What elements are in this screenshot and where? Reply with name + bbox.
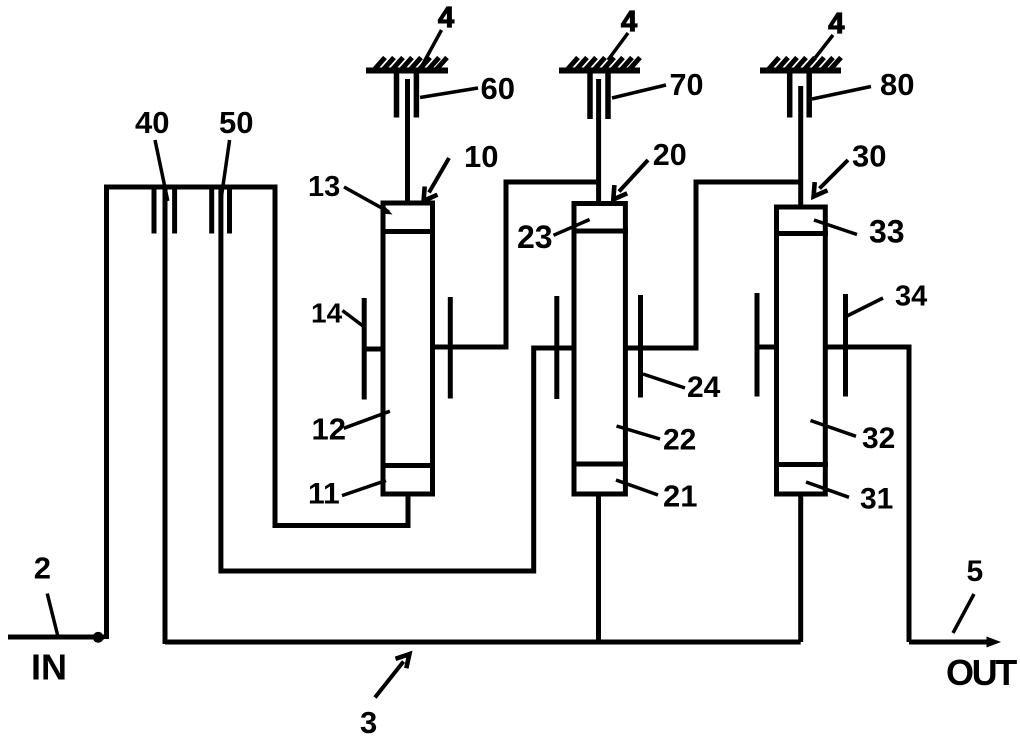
label 31 xyxy=(806,482,893,516)
wire: clutch 50 output drop xyxy=(221,187,574,571)
svg-text:60: 60 xyxy=(481,71,515,106)
brake 70 (two stubs under ground 2) xyxy=(590,72,608,119)
wire: shaft from ground 1 down to unit 10 xyxy=(405,79,410,204)
svg-text:22: 22 xyxy=(663,424,696,457)
clutch 40 (right plate) xyxy=(172,189,177,234)
wire: left input riser xyxy=(104,185,109,639)
label 4 (ground 3) xyxy=(815,8,844,58)
node IN arrow xyxy=(8,635,104,640)
label 50 xyxy=(219,105,253,196)
svg-text:33: 33 xyxy=(869,214,905,250)
svg-text:OUT: OUT xyxy=(946,652,1017,693)
label 70 xyxy=(612,68,703,102)
label 60 xyxy=(420,71,515,106)
svg-text:10: 10 xyxy=(464,139,498,174)
svg-text:IN: IN xyxy=(31,647,67,688)
label 22 xyxy=(617,424,697,457)
wire: shaft from ground 2 down to unit 20 xyxy=(596,79,601,205)
label 10 with arrow xyxy=(424,139,499,201)
gear plate (left of unit 30) xyxy=(755,293,760,397)
label 40 xyxy=(135,105,169,201)
brake 60 (two stubs under ground 1) xyxy=(397,72,417,118)
wire: unit 30 right side to output drop xyxy=(825,347,909,642)
label 34 xyxy=(846,281,927,317)
wire: shaft from ground 3 down to unit 30 xyxy=(798,86,803,208)
wire: stub plate 14 to unit 10 xyxy=(362,347,383,352)
gear plate 14 (left of unit 10) xyxy=(362,298,367,400)
unit 20 upper cap divider 23 xyxy=(572,229,629,234)
wire: stub plate to unit 30 xyxy=(755,345,777,350)
label 33 xyxy=(814,214,905,250)
label 30 with arrow xyxy=(814,139,887,197)
svg-text:12: 12 xyxy=(312,412,346,447)
ground (fixed frame) symbol over unit 30 xyxy=(760,58,841,72)
svg-text:20: 20 xyxy=(653,138,687,172)
wire: unit 10 right side up-and-over to unit 20 shaft xyxy=(433,182,599,347)
gear plate 24 (right of unit 20) xyxy=(638,295,643,398)
gear plate (right of unit 10) xyxy=(448,297,453,399)
wire: bottom rail 3 xyxy=(165,640,801,645)
svg-text:5: 5 xyxy=(967,555,984,588)
label 12 xyxy=(312,411,390,446)
wire: input top rail xyxy=(104,185,278,190)
svg-text:80: 80 xyxy=(880,67,914,102)
svg-text:4: 4 xyxy=(438,2,454,34)
svg-text:24: 24 xyxy=(687,371,721,404)
svg-text:14: 14 xyxy=(311,298,343,329)
vibrator unit 10 body xyxy=(383,203,433,494)
label 4 (ground 2) xyxy=(608,6,637,60)
svg-text:50: 50 xyxy=(219,105,253,140)
unit 20 lower cap divider 21 xyxy=(572,462,629,467)
brake 80 (two stubs under ground 3) xyxy=(790,72,810,118)
svg-text:2: 2 xyxy=(34,551,51,586)
label 32 xyxy=(811,421,896,456)
svg-text:30: 30 xyxy=(852,139,886,174)
unit 10 lower cap divider 11 xyxy=(381,463,436,468)
svg-text:31: 31 xyxy=(860,483,893,516)
vibrator unit 30 body xyxy=(777,207,826,494)
unit 30 upper cap divider 33 xyxy=(774,231,828,236)
svg-text:3: 3 xyxy=(360,705,377,740)
ground (fixed frame) symbol over unit 20 xyxy=(559,58,640,72)
label 24 xyxy=(643,371,721,404)
label 14 xyxy=(311,298,363,329)
svg-text:70: 70 xyxy=(670,68,704,102)
label 21 xyxy=(616,479,697,514)
label 20 with arrow xyxy=(613,138,686,200)
ground (fixed frame) symbol over unit 10 xyxy=(366,58,448,72)
unit 30 lower cap divider 31 xyxy=(774,462,828,467)
svg-text:4: 4 xyxy=(621,6,637,38)
svg-text:40: 40 xyxy=(135,105,169,140)
clutch 50 (right plate) xyxy=(227,189,232,234)
unit 10 upper cap divider 13 xyxy=(381,229,436,234)
label 2 xyxy=(34,551,58,636)
wire: top rail right end drop to unit 10 lower shaft xyxy=(275,187,408,526)
label 23 xyxy=(517,219,590,255)
svg-text:23: 23 xyxy=(517,219,553,255)
svg-text:11: 11 xyxy=(308,478,340,511)
svg-text:13: 13 xyxy=(308,171,340,203)
wire: clutch 40 output drop to bottom rail xyxy=(163,187,168,644)
clutch 40 (left plate) xyxy=(152,189,157,234)
clutch 50 (left plate) xyxy=(209,189,214,234)
label 80 xyxy=(812,67,914,102)
gear plate 34 (right of unit 30) xyxy=(843,294,848,397)
svg-text:32: 32 xyxy=(862,422,895,455)
vibrator unit 20 body xyxy=(574,204,625,495)
svg-text:21: 21 xyxy=(663,479,697,514)
label 3 with arrow xyxy=(360,654,409,740)
label 11 xyxy=(308,478,386,511)
label 4 (ground 1) xyxy=(421,2,454,68)
label 13 xyxy=(308,171,393,215)
wire: unit 30 lower shaft to bottom rail xyxy=(798,494,803,642)
wire: unit 20 right side up-and-over to unit 30 shaft xyxy=(626,182,801,348)
gear plate (left of unit 20) xyxy=(554,296,559,399)
svg-text:34: 34 xyxy=(895,281,927,313)
svg-text:4: 4 xyxy=(828,8,844,40)
label 5 xyxy=(953,555,983,633)
wire: unit 10 lower shaft handled above; unit 20 lower shaft to bottom rail xyxy=(596,494,601,642)
node OUT arrow xyxy=(909,640,989,645)
